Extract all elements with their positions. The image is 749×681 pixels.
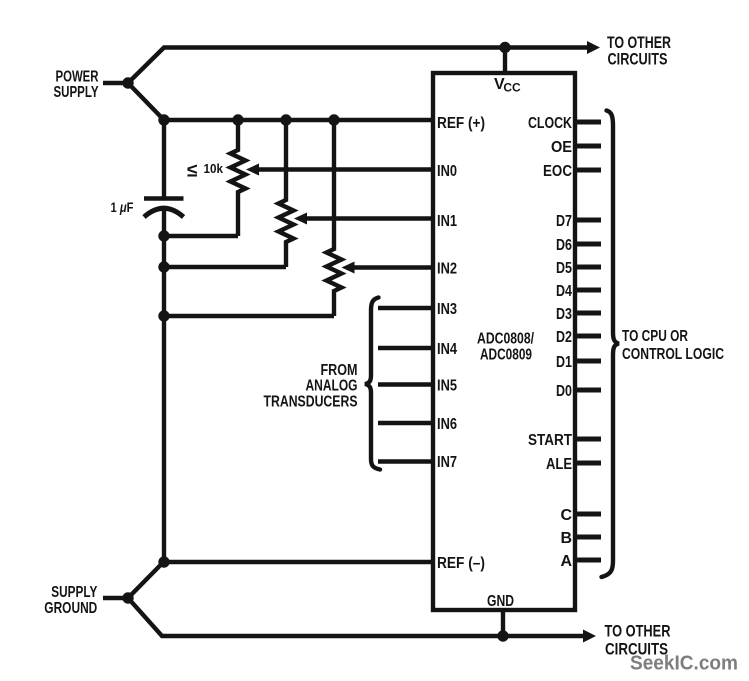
svg-text:IN2: IN2 — [437, 260, 457, 277]
svg-text:GND: GND — [487, 593, 514, 610]
svg-text:B: B — [560, 530, 572, 547]
svg-text:START: START — [528, 432, 572, 449]
svg-text:GROUND: GROUND — [44, 600, 97, 617]
svg-text:REF (+): REF (+) — [437, 115, 485, 132]
svg-text:TRANSDUCERS: TRANSDUCERS — [264, 394, 358, 411]
svg-text:A: A — [560, 553, 572, 570]
svg-text:C: C — [560, 507, 572, 524]
svg-text:CC: CC — [503, 81, 521, 95]
svg-text:IN6: IN6 — [437, 416, 457, 433]
svg-text:SeekIC.com: SeekIC.com — [630, 653, 738, 675]
svg-text:EOC: EOC — [543, 163, 572, 180]
svg-text:IN3: IN3 — [437, 301, 457, 318]
svg-text:REF (–): REF (–) — [437, 555, 485, 572]
svg-text:D6: D6 — [556, 237, 572, 254]
svg-text:IN7: IN7 — [437, 454, 457, 471]
svg-text:OE: OE — [551, 139, 572, 156]
svg-text:10k: 10k — [204, 161, 224, 176]
svg-text:D4: D4 — [556, 283, 572, 300]
svg-text:ADC0809: ADC0809 — [480, 347, 532, 364]
svg-text:D5: D5 — [556, 260, 572, 277]
svg-text:CONTROL LOGIC: CONTROL LOGIC — [622, 346, 724, 363]
svg-text:IN0: IN0 — [437, 163, 457, 180]
svg-text:D7: D7 — [556, 213, 572, 230]
svg-text:SUPPLY: SUPPLY — [54, 84, 99, 101]
svg-text:SUPPLY: SUPPLY — [51, 584, 97, 601]
svg-text:1 μF: 1 μF — [111, 199, 134, 215]
svg-text:IN4: IN4 — [437, 341, 457, 358]
svg-text:FROM: FROM — [321, 362, 358, 379]
svg-text:IN1: IN1 — [437, 213, 457, 230]
svg-text:ANALOG: ANALOG — [306, 378, 358, 395]
svg-text:D1: D1 — [556, 354, 572, 371]
svg-text:D3: D3 — [556, 306, 572, 323]
svg-text:ALE: ALE — [546, 456, 572, 473]
svg-text:≤: ≤ — [187, 161, 197, 182]
svg-text:D0: D0 — [556, 383, 572, 400]
svg-text:IN5: IN5 — [437, 377, 457, 394]
svg-text:CIRCUITS: CIRCUITS — [608, 50, 668, 69]
svg-text:ADC0808/: ADC0808/ — [477, 331, 534, 348]
svg-text:POWER: POWER — [56, 68, 99, 85]
svg-text:TO OTHER: TO OTHER — [605, 622, 671, 641]
svg-text:TO CPU OR: TO CPU OR — [622, 328, 688, 345]
svg-text:CLOCK: CLOCK — [528, 115, 572, 132]
svg-text:D2: D2 — [556, 329, 572, 346]
